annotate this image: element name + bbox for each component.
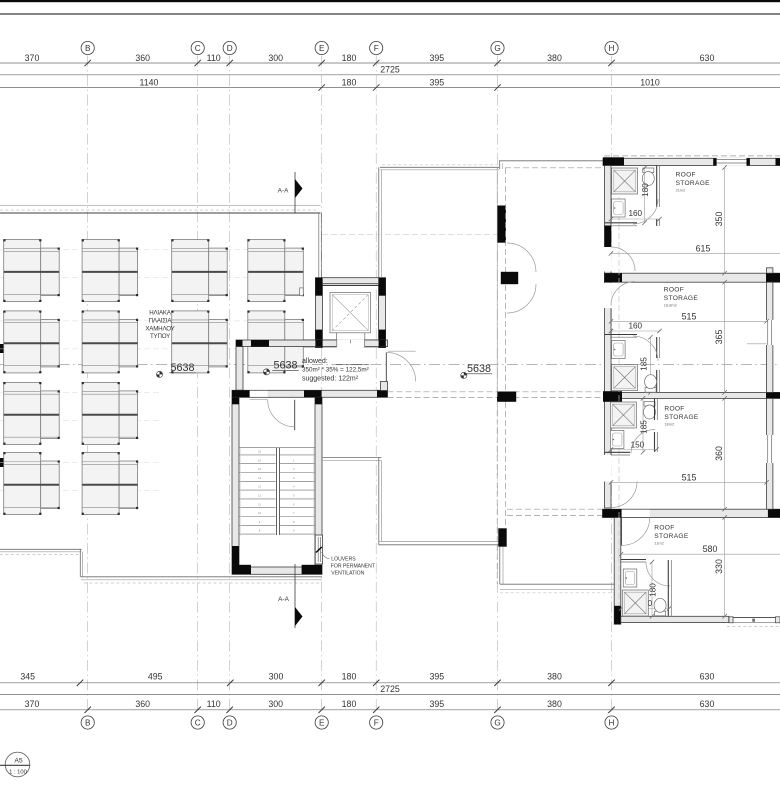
elevator cab (330, 292, 371, 332)
room2 bathroom door (633, 336, 658, 361)
grid line F (375, 56, 377, 713)
svg-text:160: 160 (628, 209, 642, 218)
svg-text:STORAGE: STORAGE (676, 180, 711, 187)
svg-text:D: D (227, 44, 233, 53)
grid line E (321, 56, 323, 713)
left roof top edge (0, 205, 321, 213)
room2 bathroom north wall (605, 335, 638, 338)
solar panel group row 2 col 1 (3, 311, 60, 374)
room3 entrance door (611, 482, 637, 508)
solar panel group row 3 col 2 (82, 382, 139, 445)
lower roof east edge (379, 457, 382, 545)
svg-text:5638: 5638 (467, 363, 491, 375)
stair treads right flight (280, 455, 315, 534)
mid room east door (386, 351, 415, 381)
svg-text:630: 630 (700, 53, 715, 63)
top dimension line 3 (0, 84, 780, 90)
room4 shower (622, 590, 648, 616)
balcony level line room2 (747, 343, 767, 345)
svg-text:F: F (374, 44, 379, 53)
solar panel axis dashes row 2 (0, 321, 305, 349)
room1 toilet (642, 168, 654, 186)
svg-text:A-A: A-A (278, 188, 289, 195)
grid bubble H (605, 716, 618, 729)
svg-text:ΗΛΙΑΚΑ: ΗΛΙΑΚΑ (149, 310, 172, 317)
terrace south-east pier (498, 528, 506, 546)
grid line B (87, 56, 89, 713)
room4 entrance door (622, 518, 650, 546)
top dimension row 2 labels (140, 77, 660, 87)
grid line D (229, 56, 231, 713)
terrace north edge (380, 165, 499, 170)
svg-text:365: 365 (714, 330, 724, 345)
stair treads left flight (239, 455, 276, 534)
room1 bathroom door (633, 199, 658, 224)
room1 label (676, 172, 711, 193)
solar panel axis dashes row 4 (0, 463, 160, 491)
svg-text:ΤΥΠΟΥ: ΤΥΠΟΥ (150, 333, 170, 340)
room3 label (664, 406, 699, 427)
svg-text:ΠΛΑΙΣΙΑ: ΠΛΑΙΣΙΑ (149, 318, 173, 325)
svg-text:300: 300 (268, 53, 283, 63)
top dimension line 1 (0, 60, 780, 66)
svg-text:10: 10 (258, 511, 261, 515)
room3 toilet (644, 402, 656, 420)
room3 dim 360 vertical (714, 396, 727, 511)
svg-text:350m² * 35% = 122,5m²: 350m² * 35% = 122,5m² (302, 367, 369, 374)
svg-text:11m2: 11m2 (654, 541, 663, 546)
svg-text:STORAGE: STORAGE (664, 414, 699, 421)
svg-text:18,8m2: 18,8m2 (664, 303, 677, 308)
svg-text:360: 360 (135, 53, 150, 63)
stair stringer (276, 448, 279, 535)
solar panel axis dashes row 1 (0, 250, 305, 278)
room2 entrance door (611, 282, 635, 306)
section line A-A top (278, 172, 303, 213)
room4 bathroom north wall (621, 560, 646, 563)
svg-text:300: 300 (269, 672, 284, 682)
stair west wall (232, 397, 239, 567)
east building top canopy dashed (499, 156, 780, 169)
room1 dim 615 (609, 243, 780, 255)
room1 shower (612, 168, 638, 194)
bottom dimension row 2 labels (25, 699, 715, 709)
room band 2 (603, 391, 780, 402)
room band 1 (605, 273, 780, 282)
svg-text:19: 19 (258, 450, 261, 454)
svg-text:185: 185 (640, 357, 649, 371)
roof overhang dashes east of mid room (388, 392, 605, 398)
pergola dashes east terrace (507, 509, 603, 515)
terrace gate door south (507, 284, 536, 313)
grid bubble F (370, 716, 383, 729)
solar panel group row 1 col 1 (3, 239, 60, 302)
stair south wall (232, 565, 322, 575)
east building north wall band (603, 157, 780, 166)
svg-text:1140: 1140 (140, 77, 159, 87)
greek label solar panels (145, 310, 174, 341)
elevator shaft north wall (322, 278, 378, 286)
svg-text:E: E (319, 718, 325, 727)
room4 dim 160 (619, 599, 671, 611)
grid bubble C (191, 41, 204, 54)
svg-text:300: 300 (268, 699, 283, 709)
svg-text:380: 380 (547, 53, 562, 63)
svg-text:180: 180 (342, 53, 357, 63)
solar panel group row 1 col 4 (247, 239, 303, 302)
svg-text:E: E (319, 44, 325, 53)
overhang dashed inside rooms (618, 170, 620, 605)
svg-text:13: 13 (258, 485, 261, 489)
svg-text:H: H (609, 44, 615, 53)
east building bottom wall (621, 616, 729, 622)
solar panel group row 4 col 2 (82, 452, 139, 515)
grid line H (611, 56, 613, 713)
room1 sink (612, 199, 626, 217)
grid bubble B (81, 41, 94, 54)
solar panel group row 2 col 4 (247, 311, 303, 374)
svg-text:21m2: 21m2 (676, 188, 686, 193)
lower roof south edge (379, 542, 499, 545)
east wall rooms 2-3 (766, 268, 774, 393)
svg-text:ΧΑΜΗΛΟΥ: ΧΑΜΗΛΟΥ (145, 326, 174, 333)
room3 sink (610, 431, 624, 449)
svg-text:360: 360 (135, 699, 150, 709)
grid bubble F (370, 41, 383, 54)
svg-text:350: 350 (714, 212, 724, 227)
room4 dim 580 (619, 544, 780, 556)
svg-text:B: B (85, 718, 91, 727)
room3 dim 185 vertical (639, 396, 648, 454)
svg-text:370: 370 (25, 53, 40, 63)
svg-text:B: B (85, 44, 91, 53)
louver in stair east wall (315, 535, 322, 564)
svg-text:ROOF: ROOF (664, 406, 684, 413)
title frame top bar (0, 0, 780, 2)
east building west wall room 4 (614, 518, 621, 625)
svg-text:180: 180 (342, 699, 357, 709)
grid bubble G (491, 41, 504, 54)
bottom dimension line 3 (0, 707, 780, 713)
svg-text:495: 495 (148, 672, 163, 682)
elevator south wing walls (304, 340, 379, 347)
room2 dim 365 vertical (714, 280, 727, 395)
left roof south edge (81, 577, 322, 583)
elevation marker 5638 right (461, 363, 493, 379)
elevator shaft east wall (379, 278, 386, 348)
svg-text:395: 395 (429, 672, 444, 682)
svg-text:5638: 5638 (273, 360, 297, 372)
mid room west wall (236, 347, 243, 391)
grid bubble E (315, 41, 328, 54)
grid bubble C (191, 716, 204, 729)
svg-text:160: 160 (628, 322, 642, 331)
stair landing edge (239, 447, 315, 449)
svg-text:18m2: 18m2 (664, 422, 674, 427)
title block circle A5 1:100 (0, 752, 30, 777)
svg-text:180: 180 (342, 77, 357, 87)
grid line C (197, 56, 199, 713)
svg-text:15: 15 (258, 467, 261, 471)
bottom dimension row 1 labels (20, 672, 714, 682)
room3 shower (610, 402, 636, 428)
svg-text:VENTILATION: VENTILATION (331, 570, 364, 576)
room4 label (654, 525, 689, 546)
solar panel group row 2 col 3 (171, 311, 228, 374)
svg-text:185: 185 (639, 420, 648, 434)
stair entry door (250, 399, 295, 430)
stair east wall (315, 397, 322, 567)
terrace west edge (379, 167, 382, 277)
lower roof north edge (322, 457, 382, 460)
svg-text:150: 150 (631, 441, 645, 450)
top dimension row 1 labels (25, 53, 715, 63)
room2 toilet (645, 375, 657, 393)
grid bubble E (315, 716, 328, 729)
svg-text:12: 12 (258, 494, 261, 498)
stair tread numbers (258, 450, 295, 533)
room3 bathroom door (631, 430, 655, 454)
section line A-A bottom (278, 564, 302, 628)
left roof west step edge (80, 549, 82, 577)
svg-text:G: G (494, 718, 500, 727)
svg-text:395: 395 (429, 77, 444, 87)
svg-text:515: 515 (682, 311, 697, 321)
cut wall tick left edge 2 (0, 458, 4, 467)
svg-text:110: 110 (207, 699, 221, 709)
terrace north-east pier (497, 206, 506, 243)
svg-text:D: D (227, 718, 233, 727)
elevator shaft west wall (315, 278, 322, 348)
allowed area annotation (302, 358, 369, 383)
svg-text:180: 180 (648, 583, 657, 597)
room4 dim 180 vertical (648, 560, 657, 619)
svg-text:suggested: 122m²: suggested: 122m² (302, 376, 359, 383)
bottom dimension line 2 (0, 694, 780, 696)
terrace east boundary line (496, 168, 498, 584)
dashes right of bottom wall (727, 626, 780, 628)
room4 bathroom east wall (668, 560, 671, 616)
svg-text:330: 330 (714, 559, 724, 574)
left roof south-west edge (0, 549, 82, 554)
svg-text:1010: 1010 (640, 77, 660, 87)
room1 entrance door (611, 247, 635, 271)
room2 bathroom east wall (657, 337, 660, 392)
room1 dim 180 (641, 166, 650, 225)
terrace south edge (500, 584, 614, 593)
svg-text:630: 630 (700, 699, 715, 709)
svg-text:H: H (609, 718, 615, 727)
room2 dim 515 (609, 311, 769, 323)
svg-text:LOUVERS: LOUVERS (331, 557, 356, 563)
grid bubble D (223, 41, 236, 54)
room1 bathroom east wall (657, 166, 660, 227)
svg-text:14: 14 (258, 476, 261, 480)
bottom dimension line 1 (0, 680, 780, 686)
svg-text:ROOF: ROOF (676, 172, 696, 179)
east building west wall rooms 1-3 (604, 166, 612, 509)
svg-text:370: 370 (25, 699, 40, 709)
svg-text:360: 360 (714, 446, 724, 461)
room1 bathroom south wall (605, 223, 638, 226)
solar panel group row 3 col 1 (3, 382, 60, 445)
terrace gate door north (507, 243, 536, 272)
room4 sink (623, 569, 637, 587)
solar panel group row 2 col 2 (82, 311, 139, 374)
stair flight edges (241, 448, 314, 536)
mid room north wall band (236, 340, 388, 347)
svg-text:STORAGE: STORAGE (654, 533, 689, 540)
elevation marker 5638 middle (263, 360, 298, 376)
horizontal datum grid line (0, 363, 780, 365)
top dimension line 2 (0, 74, 780, 76)
room2 sink (612, 341, 626, 359)
room4 toilet (654, 598, 666, 616)
svg-text:580: 580 (703, 544, 718, 554)
room2 shower (612, 365, 638, 391)
terrace interior dashed line (322, 234, 497, 236)
solar panel axis dashes row 3 (0, 392, 160, 420)
svg-text:5638: 5638 (170, 362, 194, 374)
solar panel group row 1 col 2 (82, 239, 139, 302)
left roof east parapet above elevator (319, 213, 322, 278)
svg-text:380: 380 (547, 672, 562, 682)
elevation marker 5638 left (156, 362, 195, 378)
svg-text:395: 395 (429, 53, 444, 63)
terrace gate pier (501, 272, 518, 284)
grid bubble H (605, 41, 618, 54)
svg-text:11: 11 (258, 502, 261, 506)
svg-text:16: 16 (258, 458, 261, 462)
east bottom window sill (729, 617, 780, 623)
solar panel group row 1 col 3 (171, 239, 228, 302)
terrace south wall segment (500, 547, 503, 585)
svg-text:180: 180 (641, 183, 650, 197)
room3 bathroom south wall (605, 452, 631, 455)
svg-text:380: 380 (547, 699, 562, 709)
room2 dim 160 (609, 322, 662, 334)
svg-text:C: C (195, 718, 201, 727)
room2 label (664, 287, 699, 308)
room1 dim 350 vertical (714, 165, 727, 275)
svg-text:ROOF: ROOF (664, 287, 684, 294)
mid room south wall band (232, 390, 388, 397)
svg-text:ROOF: ROOF (654, 525, 674, 532)
svg-text:1 : 100: 1 : 100 (9, 770, 27, 776)
roof pier west of elevator (300, 288, 304, 296)
svg-text:615: 615 (696, 243, 711, 253)
cut wall tick left edge 1 (0, 344, 4, 353)
room1 dim 160 (609, 209, 662, 221)
grid bubble G (491, 716, 504, 729)
grid bubble B (81, 716, 94, 729)
svg-text:180: 180 (342, 672, 357, 682)
svg-text:2725: 2725 (380, 65, 400, 75)
svg-text:2725: 2725 (380, 684, 400, 694)
grid bubble D (223, 716, 236, 729)
terrace east railing dashed (505, 168, 507, 528)
grid line G (497, 56, 499, 713)
svg-text:110: 110 (207, 53, 221, 63)
solar panel group row 4 col 1 (3, 452, 60, 515)
svg-text:C: C (195, 44, 201, 53)
room4 bathroom door (646, 562, 670, 586)
room band 3 (603, 509, 780, 517)
room3 dim 515 (609, 472, 769, 484)
room3 dim 150 (609, 441, 659, 452)
svg-text:345: 345 (20, 672, 35, 682)
svg-text:395: 395 (429, 699, 444, 709)
svg-text:A-A: A-A (278, 596, 289, 603)
svg-text:630: 630 (700, 672, 715, 682)
svg-text:G: G (494, 44, 500, 53)
svg-text:allowed:: allowed: (302, 358, 328, 365)
pier on grid G at band 2 level (497, 392, 516, 402)
svg-text:F: F (374, 718, 379, 727)
room2 dim 185 vertical (640, 335, 653, 395)
mid room east wall below door (381, 382, 388, 391)
svg-text:STORAGE: STORAGE (664, 295, 699, 302)
svg-text:A5: A5 (14, 758, 23, 765)
room3 bathroom east wall (655, 398, 658, 452)
room4 dim 330 vertical (714, 515, 727, 618)
elevator door sill (337, 333, 365, 343)
svg-text:FOR PERMANENT: FOR PERMANENT (331, 564, 375, 570)
louver leader and label (322, 552, 375, 576)
svg-text:515: 515 (682, 472, 697, 482)
